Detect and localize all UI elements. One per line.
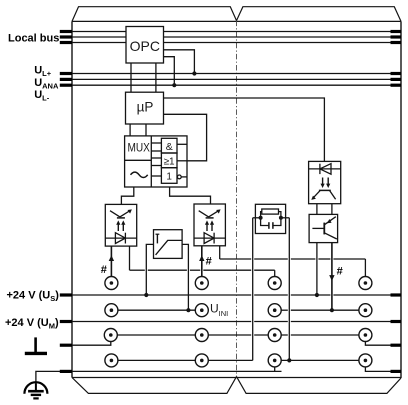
local bus line 2: [72, 36, 401, 38]
wire ramp box to UINI net: [182, 244, 188, 310]
RC node right dot: [279, 216, 283, 220]
terminal 1b: [195, 277, 208, 290]
op uP box: [126, 92, 164, 124]
svg-text:µP: µP: [137, 100, 154, 115]
OR gate box: [161, 153, 177, 168]
local bus line 1: [72, 31, 401, 33]
wire U2 output to terminal 1d: [220, 246, 366, 283]
wire Q1 to UINI net with down arrow: [329, 243, 334, 311]
analog supply bus line UL+: [72, 73, 401, 75]
NOT gate output stub: [181, 176, 187, 178]
+24V US rail: [72, 294, 401, 296]
svg-text:#: #: [206, 256, 212, 268]
ramp generator box: [154, 230, 183, 259]
earth ground connection wire: [36, 371, 72, 383]
bus terminal marks left: [60, 32, 72, 372]
optocoupler U1 LED diode: [105, 233, 136, 244]
terminal circles: [104, 277, 372, 367]
svg-text:MUX: MUX: [128, 141, 150, 155]
terminal 4a: [105, 354, 118, 367]
wire row2 right: [275, 309, 366, 311]
optocoupler U3 light arrows: [321, 178, 331, 189]
optocoupler U2 LED diode: [194, 233, 225, 244]
terminal 4c: [268, 354, 281, 367]
junction dot OPC-UL+: [192, 71, 196, 75]
junction dot RC-row4: [287, 358, 291, 362]
wire row4 right: [275, 359, 366, 361]
NOT gate inverter bubble: [177, 175, 181, 179]
wire OPC to UL- bus: [164, 57, 175, 85]
optocoupler U1 box: [105, 204, 136, 246]
analog supply bus line UANA: [72, 78, 401, 80]
terminal 4b: [195, 354, 208, 367]
OPC box: [126, 27, 164, 64]
+24V UM rail: [72, 321, 401, 323]
wire OPC to UL+ bus: [164, 50, 195, 74]
module housing outline top: [72, 7, 401, 22]
section divider dash-dot line: [236, 21, 238, 377]
ground rail segment left: [72, 370, 282, 372]
svg-text:1: 1: [166, 171, 172, 182]
junction dot OPC-UL-: [172, 83, 176, 87]
svg-text:OPC: OPC: [130, 38, 160, 54]
terminal 3c: [268, 329, 281, 342]
gate input stubs: [151, 143, 161, 176]
junction dot ramp-UINI: [186, 308, 190, 312]
optocoupler U3 LED diode: [309, 164, 341, 175]
optocoupler U1 light arrows: [116, 220, 125, 231]
RC loop wires: [261, 212, 281, 226]
optocoupler U2 box: [194, 204, 225, 246]
optocoupler U2 light arrows: [205, 220, 214, 231]
junction dot Q1-US: [315, 293, 319, 297]
wire OPC to uP right: [155, 63, 157, 92]
wire terminal 1a to U1 with up arrow: [109, 246, 114, 283]
functional earth symbol: [25, 337, 47, 353]
terminal 2b: [195, 304, 208, 317]
wire U3 to Q1 right: [331, 204, 333, 215]
wire RC left to terminal row4: [253, 218, 261, 361]
optocoupler U3 box: [309, 161, 341, 203]
junction dot ramp-US: [144, 293, 148, 297]
transistor Q1 box: [309, 214, 338, 242]
wire ramp box to US rail: [146, 244, 153, 295]
wire terminal 3d to right ground mark: [365, 338, 401, 345]
terminal 1d: [359, 277, 372, 290]
ramp generator I glyph: [156, 234, 160, 243]
analog supply bus line UL-: [72, 84, 401, 86]
svg-text:&: &: [166, 141, 173, 153]
terminal center dots: [109, 281, 367, 362]
sine generator symbol: [131, 172, 148, 177]
wire sine box to optocoupler U1: [121, 187, 133, 204]
svg-text:#: #: [101, 264, 107, 276]
svg-text:#: #: [337, 266, 343, 278]
wire OPC to uP left: [130, 63, 132, 92]
optocoupler U3 phototransistor: [311, 190, 335, 200]
local bus line 3: [72, 42, 401, 44]
terminal 1c: [268, 277, 281, 290]
wire uP to MUX right: [145, 124, 147, 136]
wire RC right down to row4 junction: [281, 218, 289, 361]
RC network box: [255, 204, 285, 233]
RC node left dot: [259, 216, 263, 220]
terminal 3d: [359, 329, 372, 342]
terminal 3b: [195, 329, 208, 342]
wire terminal 4d to right ground rail: [365, 363, 401, 371]
terminal 2d: [359, 304, 372, 317]
wire terminal 4c to ground rail: [274, 363, 276, 371]
wire uP to OR gate: [164, 114, 207, 161]
wire uP to MUX left: [129, 124, 131, 136]
junction dot Q1-UINI: [330, 308, 334, 312]
wire terminal 1b to U2 with up arrow: [199, 246, 204, 283]
wire row2 left UINI: [111, 309, 201, 311]
svg-text:Local bus: Local bus: [8, 32, 59, 44]
svg-text:≥1: ≥1: [164, 157, 175, 168]
transistor Q1 symbol: [312, 217, 336, 239]
wire Q1 to US rail: [316, 243, 318, 295]
optocoupler U2 phototransistor: [199, 209, 221, 218]
MUX / logic compound box: [125, 136, 187, 187]
wire U1 feedback to terminal 1c: [130, 246, 275, 283]
AND gate output stub: [177, 143, 187, 145]
terminal 3a: [104, 329, 117, 342]
capacitor C1: [269, 222, 273, 229]
optocoupler U1 phototransistor: [110, 209, 132, 218]
terminal 2a: [105, 304, 118, 317]
wire terminal 3a to ground mark: [72, 338, 111, 345]
module housing outline bottom: [72, 377, 401, 394]
wire row4 left: [111, 359, 252, 361]
protective earth symbol: [24, 382, 47, 398]
bus terminal marks right: [391, 32, 402, 372]
ramp generator curve: [156, 240, 183, 255]
NOT gate box: [161, 168, 177, 184]
terminal 2c: [268, 304, 281, 317]
wire U3 to Q1 left: [316, 204, 318, 215]
resistor R1: [262, 209, 279, 214]
terminal 1a: [105, 277, 118, 290]
module housing left wall: [71, 21, 73, 377]
terminal 4d: [359, 354, 372, 367]
OR gate output stub: [177, 160, 187, 162]
AND gate box: [161, 138, 177, 153]
wire uP to right optocoupler U3: [164, 98, 325, 161]
wire logic box to optocoupler U2: [170, 187, 211, 204]
wire row3: [111, 334, 366, 336]
module housing right wall: [400, 21, 402, 378]
